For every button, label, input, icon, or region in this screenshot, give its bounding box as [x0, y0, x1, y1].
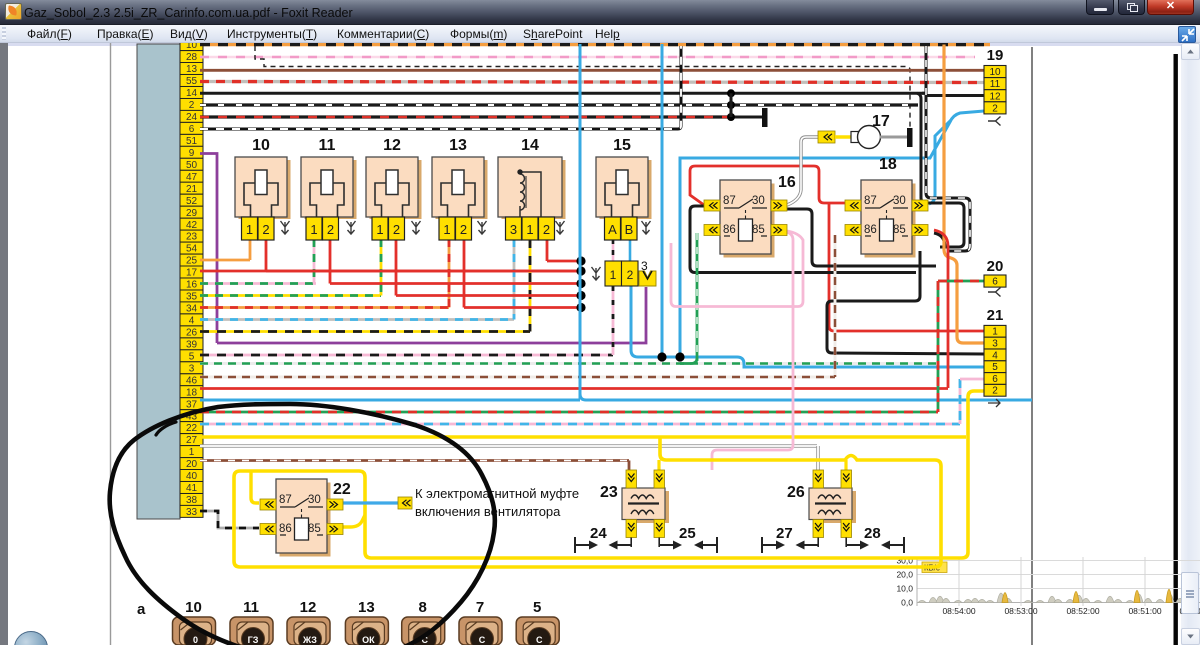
svg-text:41: 41 — [186, 483, 198, 494]
ignition coil 26 bottom-right pin — [841, 520, 852, 538]
svg-text:ЖЗ: ЖЗ — [302, 635, 317, 645]
wire 34: orange/red — [200, 306, 449, 309]
scrollbar thumb — [1181, 572, 1199, 614]
junction dots on red bus — [576, 256, 585, 312]
wire pink relay16 pin85 — [712, 232, 793, 470]
svg-text:10: 10 — [186, 43, 198, 51]
wire 46 riser — [834, 235, 837, 377]
svg-text:9: 9 — [189, 148, 195, 159]
svg-text:39: 39 — [186, 340, 198, 351]
ground at fuse 11 — [347, 221, 356, 234]
wire 46: white/brown — [200, 376, 835, 379]
svg-text:17: 17 — [186, 268, 198, 279]
wire yellow drop to coil26 — [844, 460, 847, 470]
svg-text:3: 3 — [510, 222, 517, 237]
relay 18 pin86 connector — [845, 225, 861, 236]
bottom-left circular button — [14, 631, 48, 645]
svg-text:1: 1 — [526, 222, 533, 237]
lamp 7 — [459, 599, 502, 645]
svg-text:23: 23 — [600, 484, 618, 501]
svg-text:1: 1 — [376, 222, 383, 237]
wire 17: red feed — [200, 270, 581, 273]
svg-text:6: 6 — [992, 277, 998, 288]
wire 9: purple — [200, 154, 217, 344]
connector 19 — [984, 47, 1006, 114]
wire blue to clutch — [341, 501, 398, 504]
svg-text:33: 33 — [186, 507, 198, 518]
connector 20 — [984, 258, 1006, 288]
ignition coil 26 — [787, 484, 856, 523]
svg-text:42: 42 — [186, 220, 198, 231]
svg-text:5: 5 — [992, 362, 998, 373]
ignition coil 23 — [600, 484, 669, 523]
lamp 5 — [516, 599, 559, 645]
svg-text:23: 23 — [186, 232, 198, 243]
ignition coil 23 bottom-left pin — [626, 520, 637, 538]
svg-text:18: 18 — [186, 387, 198, 398]
ground at fuse 10 — [281, 221, 290, 234]
svg-text:22: 22 — [333, 481, 351, 498]
svg-text:5: 5 — [189, 351, 195, 362]
wire fuse15 pinB drop — [629, 239, 632, 263]
svg-text:08:54:00: 08:54:00 — [942, 606, 975, 616]
svg-text:a: a — [137, 601, 146, 618]
svg-text:2: 2 — [393, 222, 400, 237]
wire fuse13 pin1 drop — [448, 239, 451, 308]
wire orange vertical from wire10 to conn21 pin3 — [944, 45, 984, 344]
wire green vertical relay16 pin86 — [696, 233, 699, 361]
ignition coil 26 bottom-left pin — [813, 520, 824, 538]
svg-text:27: 27 — [186, 435, 198, 446]
wire 26: yellow/black — [200, 330, 530, 333]
relay 16 pin86 connector — [704, 225, 720, 236]
wire 24: black/red — [200, 115, 731, 118]
svg-text:включения вентилятора: включения вентилятора — [415, 504, 561, 519]
wire red to junction bus — [330, 282, 581, 285]
svg-text:1: 1 — [443, 222, 450, 237]
fork symbol conn20 — [988, 288, 1001, 297]
wire to conn20 pin6 — [938, 280, 984, 283]
wire 14 branch to conn19 pin12 — [922, 93, 984, 95]
svg-text:38: 38 — [186, 495, 198, 506]
yellow relay22 pin87 link — [251, 471, 259, 503]
minimize button — [1086, 0, 1114, 15]
svg-text:30: 30 — [308, 494, 321, 506]
svg-text:2: 2 — [262, 222, 269, 237]
svg-text:21: 21 — [186, 184, 198, 195]
wire 39: purple — [217, 287, 646, 343]
ignition coil 23 bottom-right pin — [654, 520, 665, 538]
lamp 13 — [345, 599, 388, 645]
fuse block 11 — [301, 137, 357, 240]
wire 37 cyan east — [600, 399, 1032, 402]
wire black link down to conn21 pin4 — [827, 251, 984, 354]
wire white-black vertical at relay18 — [926, 46, 970, 251]
svg-text:6: 6 — [189, 124, 195, 135]
wire 16: pink/green — [200, 282, 316, 285]
svg-text:35: 35 — [186, 292, 198, 303]
wire fuse10 pin1 drop — [249, 240, 252, 260]
fork symbol conn19 — [988, 117, 1001, 126]
left window border — [0, 43, 8, 645]
fuse block 12 — [366, 137, 422, 240]
svg-text:20,0: 20,0 — [896, 570, 913, 580]
wire into conn21 pin6 — [960, 378, 984, 381]
svg-text:17: 17 — [872, 113, 890, 130]
svg-text:2: 2 — [992, 103, 998, 114]
wire 2: black/white — [200, 103, 918, 106]
relay 16 pin85 connector — [771, 225, 787, 236]
svg-text:10,0: 10,0 — [896, 584, 913, 594]
menu bar — [0, 25, 1200, 43]
yellow relay22 pin85 link — [341, 515, 365, 527]
wire 6a: thin black-white dashed — [255, 46, 910, 128]
svg-text:ОК: ОК — [362, 635, 375, 645]
wire cyan vertical 3 + east run to conn19 pin2 — [680, 111, 984, 357]
lamp 11 — [230, 599, 273, 645]
wire 22: pink/cyan — [200, 423, 960, 426]
wire fuse14 pin2 drop — [546, 239, 549, 261]
svg-text:22: 22 — [186, 423, 198, 434]
wire fuse12 pin1 drop — [380, 239, 383, 296]
spark gap arrows 28 — [846, 537, 904, 553]
relay 22 pin87 connector — [260, 499, 276, 510]
cyan vert1 merge curve — [580, 394, 600, 400]
svg-text:10: 10 — [989, 67, 1001, 78]
svg-text:30: 30 — [893, 195, 906, 207]
svg-text:3: 3 — [992, 339, 998, 350]
wire black relay16 pin87 left drop + long run — [690, 206, 916, 273]
svg-text:6: 6 — [992, 374, 998, 385]
wire 25: orange — [200, 259, 250, 262]
network monitor graph overlay — [896, 556, 1200, 617]
svg-text:1: 1 — [189, 447, 195, 458]
fuse block 13 — [432, 137, 488, 240]
svg-text:10: 10 — [252, 137, 270, 154]
ground at fuse 14 — [556, 221, 565, 234]
relay 18 pin30 connector — [912, 200, 928, 211]
svg-text:46: 46 — [186, 375, 198, 386]
wire red fuse pin2 drop x=396 — [395, 239, 398, 296]
svg-text:55: 55 — [186, 76, 198, 87]
wire 14: black — [200, 92, 926, 95]
wire 5: pink/black — [200, 354, 613, 357]
svg-text:12: 12 — [300, 599, 317, 616]
wire 27: yellow — [200, 435, 966, 438]
svg-text:3: 3 — [641, 259, 648, 273]
wire 28: pink — [200, 56, 975, 59]
arrow symbol conn21 — [988, 399, 1000, 407]
svg-text:86: 86 — [723, 224, 736, 236]
svg-text:13: 13 — [449, 137, 467, 154]
clutch wire connector — [398, 497, 412, 509]
svg-text:25: 25 — [679, 525, 696, 542]
relay 18 pin87 connector — [845, 200, 861, 211]
svg-text:ГЗ: ГЗ — [248, 635, 259, 645]
spark gap arrows 25 — [659, 537, 717, 553]
wire red branch to conn21 pin1 — [829, 204, 984, 331]
wire cyan vertical 1 — [579, 44, 582, 399]
svg-text:1: 1 — [610, 268, 617, 282]
horn connector — [818, 131, 835, 143]
wire red fuse pin2 drop x=464 — [463, 239, 466, 308]
svg-text:16: 16 — [186, 280, 198, 291]
svg-text:С: С — [479, 635, 486, 645]
svg-text:34: 34 — [186, 304, 198, 315]
wire fuse14 pin3 drop — [513, 239, 516, 320]
svg-text:10: 10 — [185, 599, 202, 616]
svg-text:25: 25 — [186, 256, 198, 267]
svg-text:2: 2 — [627, 268, 634, 282]
svg-text:7: 7 — [476, 599, 484, 616]
connector block body (teal bar) — [137, 44, 180, 519]
wire 6: white-black dashed — [200, 46, 681, 129]
svg-text:24: 24 — [186, 112, 198, 123]
svg-text:4: 4 — [189, 316, 195, 327]
horn 17 — [818, 113, 907, 149]
relay 18 pin85 connector — [912, 225, 928, 236]
svg-text:16: 16 — [778, 174, 796, 191]
svg-text:20: 20 — [987, 258, 1004, 275]
page right edge — [1174, 54, 1178, 645]
wire 20 drop to coil 23 — [628, 461, 631, 471]
wire 24 end: black + terminal — [731, 116, 763, 119]
wire conn-X pin1 drop — [612, 286, 615, 355]
svg-text:85: 85 — [752, 224, 765, 236]
relay 16 — [720, 174, 796, 258]
fuse block 15 — [596, 137, 652, 240]
wire pink loop relay16 pin85 to west — [671, 231, 803, 307]
wire blue conn-X pin2 drop + run to conn21 pin5 — [631, 286, 984, 367]
wire 43: green/red — [200, 411, 938, 414]
svg-text:85: 85 — [893, 224, 906, 236]
svg-text:11: 11 — [990, 79, 1001, 90]
svg-text:13: 13 — [186, 64, 198, 75]
connector X1 (pins 1 2 3) — [605, 259, 656, 286]
svg-text:08:51:00: 08:51:00 — [1128, 606, 1161, 616]
svg-text:К электромагнитной муфте: К электромагнитной муфте — [415, 486, 579, 501]
yellow wire riser conn21 pin2 — [234, 391, 984, 567]
wire gray horn lead — [787, 137, 818, 205]
wire red to junction bus — [266, 270, 581, 273]
wire black relay16 pin30 east drop — [787, 209, 936, 266]
svg-text:18: 18 — [879, 156, 897, 173]
svg-text:1: 1 — [246, 222, 253, 237]
svg-text:14: 14 — [521, 137, 539, 154]
relay 22 pin30 connector — [327, 499, 343, 510]
svg-text:2: 2 — [460, 222, 467, 237]
page column divider line — [1031, 47, 1033, 645]
svg-text:87: 87 — [864, 195, 877, 207]
relay 16 pin30 connector — [771, 200, 787, 211]
Foxit app icon — [5, 3, 22, 20]
ignition coil 23 top-right pin — [654, 470, 665, 488]
wire fuse11 pin1 drop — [313, 239, 316, 284]
ground at fuse 13 — [478, 221, 487, 234]
svg-text:2: 2 — [189, 100, 195, 111]
svg-text:12: 12 — [383, 137, 401, 154]
wire 43/20-6 green-red riser — [937, 281, 940, 412]
svg-text:54: 54 — [186, 244, 198, 255]
spark gap arrows 24 — [575, 537, 632, 553]
svg-text:51: 51 — [186, 136, 198, 147]
wire black joiner x731 — [730, 93, 733, 117]
svg-text:86: 86 — [279, 523, 292, 535]
wire 22 riser to conn21 pin6 — [959, 379, 962, 424]
svg-text:24: 24 — [590, 525, 607, 542]
wire red to junction — [547, 260, 581, 263]
wire red to junction bus — [464, 306, 581, 309]
collapse toolbar icon — [1178, 26, 1196, 43]
wire yellow drop to coil23 — [657, 460, 660, 470]
svg-text:37: 37 — [186, 399, 198, 410]
svg-text:47: 47 — [186, 172, 198, 183]
svg-text:0,0: 0,0 — [901, 598, 913, 608]
svg-text:8: 8 — [419, 599, 427, 616]
fuse block 10 — [235, 137, 291, 240]
svg-text:28: 28 — [864, 525, 881, 542]
scrollbar track — [1181, 43, 1200, 645]
svg-text:87: 87 — [279, 494, 292, 506]
ignition coil 23 top-left pin — [626, 470, 637, 488]
svg-text:1: 1 — [310, 222, 317, 237]
svg-text:28: 28 — [186, 52, 198, 63]
restore button — [1118, 0, 1145, 15]
svg-text:50: 50 — [186, 160, 198, 171]
svg-text:2: 2 — [327, 222, 334, 237]
svg-text:27: 27 — [776, 525, 793, 542]
wire fuse15 pinA drop — [612, 239, 615, 263]
wire 18: red — [200, 387, 948, 390]
svg-text:2: 2 — [543, 222, 550, 237]
svg-text:19: 19 — [987, 47, 1004, 64]
svg-text:20: 20 — [186, 459, 198, 470]
wire 33: gray/black dashed to relay 22 — [200, 511, 259, 528]
svg-text:15: 15 — [613, 137, 631, 154]
wire red fuse pin2 drop x=330 — [329, 239, 332, 284]
wire 20: brown/white — [200, 459, 629, 462]
svg-text:3: 3 — [189, 363, 195, 374]
wire red relay18 pin85 riser — [934, 230, 948, 388]
ground at fuse 12 — [412, 221, 421, 234]
wire cyan relay18 pin30 riser — [929, 120, 951, 204]
svg-text:1: 1 — [992, 327, 998, 338]
wire 3: white/green — [200, 362, 938, 365]
svg-text:4: 4 — [992, 350, 998, 361]
window title text — [24, 6, 353, 20]
relay 16 pin87 connector — [704, 200, 720, 211]
ignition coil 26 top-left pin — [813, 470, 824, 488]
connector 21 — [984, 307, 1006, 397]
svg-text:26: 26 — [787, 484, 805, 501]
connector pin number boxes column — [180, 39, 203, 518]
svg-text:87: 87 — [723, 195, 736, 207]
wire red fuse pin2 drop x=266 — [265, 239, 268, 271]
wire 4: gray/cyan — [200, 318, 514, 321]
svg-text:30: 30 — [752, 195, 765, 207]
svg-text:11: 11 — [319, 137, 336, 154]
black junction dots top — [727, 89, 735, 121]
svg-text:52: 52 — [186, 196, 198, 207]
svg-text:11: 11 — [243, 599, 259, 616]
relay 22 pin85 connector — [327, 524, 343, 535]
relay 22 pin86 connector — [260, 524, 276, 535]
wire 55: gray/red to conn19 pin11 — [200, 82, 984, 83]
ignition coil 26 top-right pin — [841, 470, 852, 488]
lamp 8 — [402, 599, 445, 645]
svg-text:14: 14 — [186, 88, 198, 99]
spark gap arrows 27 — [762, 537, 819, 553]
lamp 10 — [173, 599, 216, 645]
svg-text:26: 26 — [186, 328, 198, 339]
svg-text:12: 12 — [989, 91, 1001, 102]
wire red to junction bus — [396, 294, 581, 297]
svg-text:08:53:00: 08:53:00 — [1004, 606, 1037, 616]
wire 13: brown to conn19 pin10 — [200, 69, 984, 72]
wire fuse14 pin1 drop — [529, 239, 532, 332]
svg-text:86: 86 — [864, 224, 877, 236]
svg-text:A: A — [608, 222, 617, 237]
svg-text:0: 0 — [193, 635, 198, 645]
wire 37: cyan — [200, 399, 580, 402]
svg-text:40: 40 — [186, 471, 198, 482]
lamp 12 — [287, 599, 330, 645]
svg-text:21: 21 — [987, 307, 1004, 324]
wire cyan vertical 2 — [661, 44, 664, 357]
wire 35: yellow/green — [200, 294, 381, 297]
svg-text:85: 85 — [308, 523, 321, 535]
svg-text:08:52:00: 08:52:00 — [1066, 606, 1099, 616]
relay 18 — [861, 156, 916, 258]
horn terminal bar — [907, 128, 913, 147]
svg-text:29: 29 — [186, 208, 198, 219]
wire 10: orange/black to X1 — [200, 43, 990, 46]
window title bar — [0, 0, 1200, 25]
wire black row14 drop + box — [917, 93, 964, 247]
wire 1: white w/ gray edges — [200, 444, 817, 448]
ground at connector X1 — [592, 267, 601, 280]
fuse block 14 — [498, 137, 566, 240]
svg-text:13: 13 — [358, 599, 375, 616]
ground at fuse 15 — [642, 221, 651, 234]
svg-text:B: B — [625, 222, 634, 237]
red arch to relay18 pin87 — [690, 166, 845, 205]
relay 22 — [276, 479, 351, 557]
wire 1 drop to coil 26 — [816, 446, 820, 470]
svg-text:5: 5 — [533, 599, 541, 616]
page left edge line — [110, 43, 112, 645]
freehand circle annotation — [110, 404, 495, 645]
svg-text:С: С — [536, 635, 543, 645]
svg-text:2: 2 — [992, 386, 998, 397]
